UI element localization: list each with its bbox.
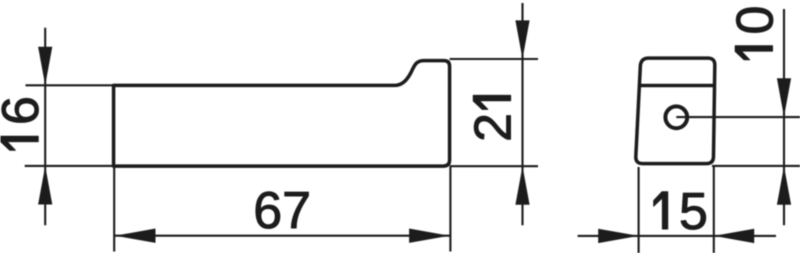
svg-text:6: 6 [0,96,50,125]
svg-text:2: 2 [465,113,523,142]
svg-text:0: 0 [727,6,785,35]
svg-text:5: 5 [679,183,708,241]
svg-text:67: 67 [253,182,311,240]
